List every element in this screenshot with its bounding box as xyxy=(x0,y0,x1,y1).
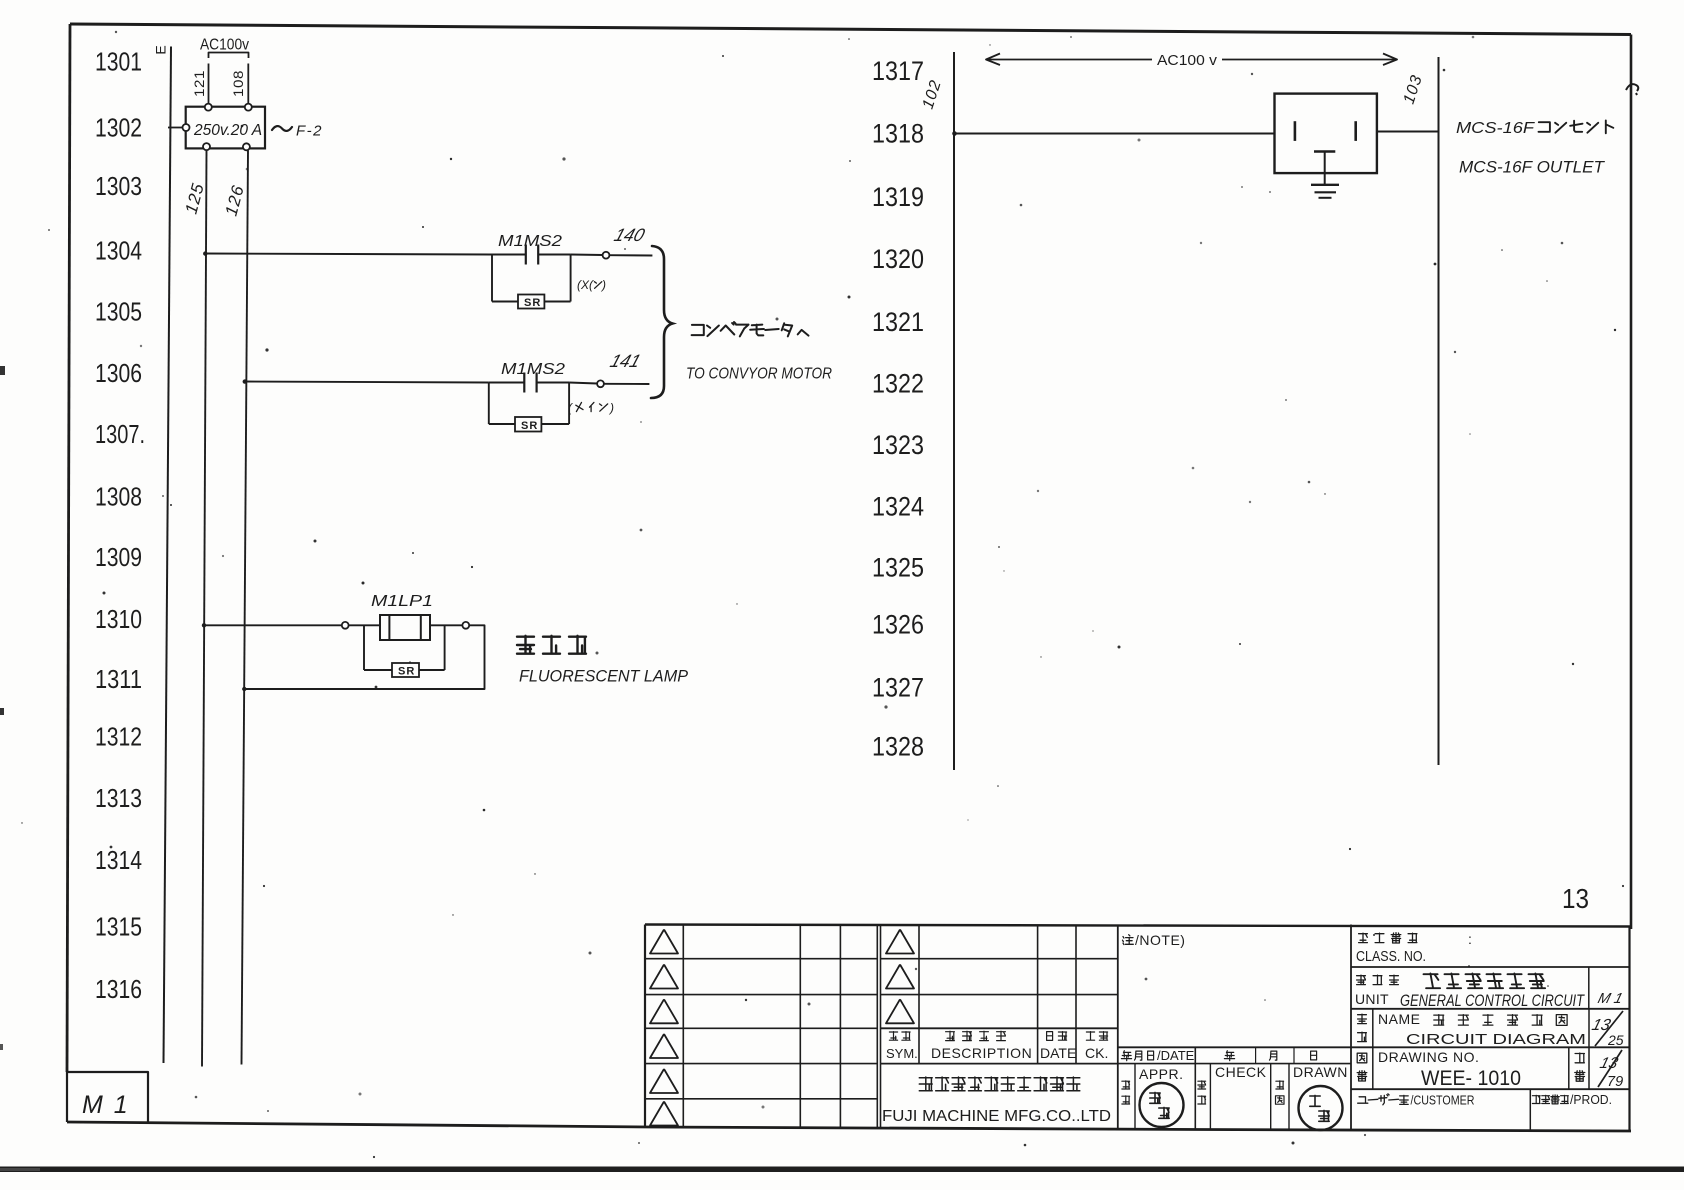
label 名称 NAME (vertical) xyxy=(1358,1014,1367,1023)
svg-text:121: 121 xyxy=(192,70,207,97)
svg-text:1304: 1304 xyxy=(95,236,142,266)
wire return loop to 126 xyxy=(244,625,485,689)
svg-text:SR: SR xyxy=(398,666,415,678)
terminal circle left of lamp xyxy=(342,622,349,629)
drawing info block grid xyxy=(1350,925,1352,1132)
outlet slot left xyxy=(1294,121,1297,141)
bus E wire xyxy=(164,47,172,1064)
svg-text:1318: 1318 xyxy=(872,119,924,149)
company name fuji machine (japanese) xyxy=(919,1077,932,1091)
ground symbol xyxy=(1311,184,1339,186)
svg-text:FUJI MACHINE MFG.CO..LTD: FUJI MACHINE MFG.CO..LTD xyxy=(882,1108,1111,1125)
label 日 xyxy=(1311,1051,1317,1060)
wire rung 1306 xyxy=(244,382,489,383)
terminal circle (141) xyxy=(597,380,604,387)
breaker terminal bottom-left xyxy=(203,143,210,150)
AC100v bracket xyxy=(209,53,249,59)
svg-text:/PROD.: /PROD. xyxy=(1570,1093,1612,1107)
svg-text:F-2: F-2 xyxy=(296,123,323,140)
revision header DATE xyxy=(1047,1032,1053,1041)
svg-text:TO CONVYOR MOTOR: TO CONVYOR MOTOR xyxy=(686,366,832,383)
wire to terminal 141 xyxy=(569,383,597,384)
svg-text:WEE- 1010: WEE- 1010 xyxy=(1421,1067,1521,1090)
label 承認 (vertical) xyxy=(1122,1081,1130,1089)
svg-text:(X(: (X( xyxy=(577,278,595,292)
svg-text:/DATE: /DATE xyxy=(1157,1048,1195,1063)
svg-text:1319: 1319 xyxy=(872,182,924,212)
svg-text:NAME: NAME xyxy=(1378,1011,1420,1027)
wire to terminal 140 xyxy=(571,254,603,257)
date header row xyxy=(1118,1063,1351,1065)
svg-text:79: 79 xyxy=(1607,1074,1623,1090)
svg-text:1320: 1320 xyxy=(872,244,924,274)
wire rung 1310 xyxy=(203,624,342,626)
label 図番 DRAWING NO (vertical) xyxy=(1357,1053,1367,1063)
svg-text:1315: 1315 xyxy=(95,912,142,942)
svg-text:1322: 1322 xyxy=(872,369,924,399)
svg-text:/NOTE): /NOTE) xyxy=(1135,932,1185,948)
svg-text:1316: 1316 xyxy=(95,974,142,1004)
page border frame xyxy=(70,24,1631,35)
svg-text:13: 13 xyxy=(1562,883,1589,914)
svg-text:1308: 1308 xyxy=(95,482,142,512)
contact M1MS2 (rung 1306) xyxy=(489,382,525,384)
approval cells xyxy=(1134,1064,1136,1130)
svg-text:1323: 1323 xyxy=(872,430,924,460)
revision header DESCRIPTION xyxy=(946,1031,955,1040)
fluorescent lamp M1LP1 xyxy=(380,615,430,640)
svg-text:SYM.: SYM. xyxy=(886,1046,918,1061)
svg-text:1326: 1326 xyxy=(872,610,924,640)
svg-text:1301: 1301 xyxy=(95,47,142,77)
breaker terminal left (E) xyxy=(183,124,190,131)
svg-text:1327: 1327 xyxy=(872,673,924,703)
revision table right xyxy=(880,925,882,1064)
label 年月日/DATE xyxy=(1121,1051,1131,1061)
wire 125 vertical xyxy=(202,151,207,1067)
svg-text:CLASS. NO.: CLASS. NO. xyxy=(1356,949,1426,965)
wire E to breaker xyxy=(168,127,182,129)
svg-text:1313: 1313 xyxy=(95,783,142,813)
svg-text:25: 25 xyxy=(1607,1032,1624,1048)
svg-text:250v.20 A: 250v.20 A xyxy=(193,122,262,139)
label 分類番号 CLASS NO xyxy=(1359,933,1368,942)
svg-text:MCS-16F: MCS-16F xyxy=(1456,120,1536,137)
svg-text:1321: 1321 xyxy=(872,307,924,337)
svg-text:CK.: CK. xyxy=(1085,1045,1108,1061)
svg-text:E: E xyxy=(153,45,169,54)
wire rung 1304 xyxy=(205,254,493,255)
svg-text:CHECK: CHECK xyxy=(1215,1064,1267,1080)
svg-text:APPR.: APPR. xyxy=(1139,1066,1184,1082)
terminal circle right of lamp xyxy=(462,622,469,629)
contact M1MS2 (rung 1304) xyxy=(492,254,526,256)
svg-text:1305: 1305 xyxy=(95,297,142,327)
wire lamp to terminal xyxy=(430,624,462,626)
wire 1318 right segment xyxy=(1377,131,1439,133)
breaker designator ~F-2 xyxy=(272,126,292,131)
circuit breaker NF-2 box 250V 20A xyxy=(186,107,265,149)
label 照査 (vertical) xyxy=(1198,1081,1206,1089)
wire 108 stub xyxy=(247,64,249,105)
label 作図 (vertical) xyxy=(1276,1081,1284,1089)
svg-text:/CUSTOMER: /CUSTOMER xyxy=(1411,1093,1475,1108)
bus 102 (left vertical, right section) xyxy=(953,52,955,770)
svg-text:DESCRIPTION: DESCRIPTION xyxy=(931,1045,1032,1061)
stamp APPR (adachi) xyxy=(1140,1083,1184,1127)
svg-text:M1MS2: M1MS2 xyxy=(498,233,562,250)
svg-text:M 1: M 1 xyxy=(1596,991,1624,1007)
AC100v span arrow xyxy=(987,59,1152,61)
svg-text:1314: 1314 xyxy=(95,845,142,875)
svg-text:1302: 1302 xyxy=(95,113,142,143)
breaker terminal top-right xyxy=(245,104,252,111)
surge killer SR (rung 1304) branch xyxy=(491,255,493,302)
revision header SYM xyxy=(889,1032,897,1041)
label ユーザー名/CUSTOMER xyxy=(1358,1097,1368,1103)
label 頁番 (vertical) xyxy=(1575,1053,1584,1063)
svg-text:DATE: DATE xyxy=(1040,1045,1076,1061)
svg-text:AC100 v: AC100 v xyxy=(1157,53,1218,69)
label 機種名 UNIT xyxy=(1357,975,1366,984)
note box 注/NOTE xyxy=(1118,1046,1351,1048)
breaker terminal top-left xyxy=(205,104,212,111)
svg-text::: : xyxy=(1468,931,1472,947)
svg-text:M1LP1: M1LP1 xyxy=(371,593,433,610)
svg-text:FLUORESCENT LAMP: FLUORESCENT LAMP xyxy=(519,668,688,686)
svg-text:DRAWN: DRAWN xyxy=(1293,1064,1348,1080)
bus 103 (right vertical, right section) xyxy=(1438,57,1440,765)
svg-text:SR: SR xyxy=(521,420,538,432)
terminal circle (140) xyxy=(603,252,610,259)
svg-text:M1MS2: M1MS2 xyxy=(501,361,565,378)
svg-text:1307.: 1307. xyxy=(95,419,145,449)
revision header CK xyxy=(1086,1032,1094,1041)
wire 1318 left segment xyxy=(954,133,1275,135)
svg-text:1310: 1310 xyxy=(95,604,142,634)
sheet code M1 box xyxy=(67,1072,148,1122)
svg-text:1312: 1312 xyxy=(95,722,142,752)
svg-text:AC100v: AC100v xyxy=(200,37,249,54)
note conveyor motor (japanese) xyxy=(692,325,704,335)
svg-text:1309: 1309 xyxy=(95,542,142,572)
svg-text:SR: SR xyxy=(524,297,541,309)
label 年 xyxy=(1224,1051,1234,1061)
outlet MCS-16F box xyxy=(1275,94,1377,174)
stamp DRAWN (ota) xyxy=(1299,1086,1343,1130)
svg-text:DRAWING NO.: DRAWING NO. xyxy=(1378,1049,1479,1065)
svg-text:UNIT: UNIT xyxy=(1355,991,1389,1007)
svg-text:1311: 1311 xyxy=(95,664,142,694)
breaker terminal bottom-right xyxy=(243,143,250,150)
surge killer SR (rung 1306) branch xyxy=(488,383,490,425)
label 生産番号/PROD. xyxy=(1532,1095,1540,1103)
svg-text:1306: 1306 xyxy=(95,358,142,388)
label 電気回路線図 xyxy=(1434,1015,1444,1026)
revision table left xyxy=(682,925,684,1128)
svg-text:GENERAL CONTROL CIRCUIT: GENERAL CONTROL CIRCUIT xyxy=(1400,992,1586,1010)
svg-text:M 1: M 1 xyxy=(82,1091,130,1119)
svg-text:CIRCUIT DIAGRAM: CIRCUIT DIAGRAM xyxy=(1406,1031,1586,1048)
outlet earth pin xyxy=(1314,150,1335,152)
title block frame xyxy=(645,925,1630,927)
surge killer SR (lamp) branch xyxy=(363,625,365,670)
svg-text:MCS-16F OUTLET: MCS-16F OUTLET xyxy=(1459,158,1606,177)
svg-text:1317: 1317 xyxy=(872,56,924,86)
svg-text:1324: 1324 xyxy=(872,492,924,522)
note fluorescent lamp (japanese) xyxy=(517,636,534,654)
svg-text:1303: 1303 xyxy=(95,171,142,201)
label 月 xyxy=(1270,1051,1277,1060)
svg-text:108: 108 xyxy=(231,70,246,97)
brace to conveyor motor xyxy=(651,246,673,398)
wire 126 vertical xyxy=(242,151,249,1065)
svg-text:1325: 1325 xyxy=(872,553,924,583)
handwritten 総合制御回路 xyxy=(1424,973,1441,988)
wire 121 stub xyxy=(208,64,210,105)
svg-text:1328: 1328 xyxy=(872,732,924,762)
outlet slot right xyxy=(1354,121,1357,141)
